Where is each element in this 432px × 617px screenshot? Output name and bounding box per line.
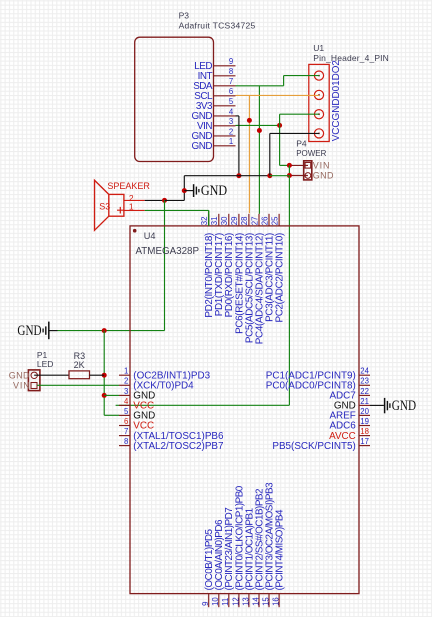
svg-text:17: 17 bbox=[360, 437, 369, 446]
svg-text:6: 6 bbox=[124, 417, 128, 426]
P3 pin 7 SDA stub bbox=[214, 85, 236, 87]
junction GND at bus bbox=[236, 173, 241, 178]
U4 pin 16 stub bbox=[278, 594, 280, 608]
wire VIN riser to U1 pad3 bbox=[279, 114, 281, 125]
U4 pin 2 stub bbox=[119, 384, 130, 386]
U4 pin 24 stub bbox=[359, 374, 370, 376]
connector P4 body bbox=[304, 161, 312, 180]
wire GND into U1 pad4 bbox=[270, 132, 319, 134]
wire SDA riser to U1 pad1 bbox=[283, 76, 285, 86]
wire SCL from P3 pin6 to U1 pad2 bbox=[236, 94, 320, 96]
U4 pin 30 stub bbox=[228, 214, 230, 226]
U4 pin 17 stub bbox=[359, 445, 370, 447]
wire R3 to GND rail junction bbox=[90, 374, 105, 376]
wire P1 VIN pad to U4 pin2 bbox=[37, 384, 119, 386]
P3 pin 6 SCL stub bbox=[214, 95, 236, 97]
junction GND to U1 riser bbox=[267, 173, 272, 178]
svg-text:GND: GND bbox=[201, 183, 227, 199]
svg-text:P3: P3 bbox=[179, 10, 190, 20]
wire GND drop from P3 pin4 bbox=[238, 116, 240, 176]
U4 pin 10 stub bbox=[218, 594, 220, 608]
P1 pad 1 (circle) bbox=[31, 372, 37, 378]
resistor R3 body bbox=[69, 371, 90, 379]
speaker plus sign bbox=[117, 207, 124, 214]
U4 pin 19 stub bbox=[359, 425, 370, 427]
svg-text:28: 28 bbox=[240, 217, 249, 226]
svg-text:30: 30 bbox=[220, 216, 229, 225]
svg-text:25: 25 bbox=[270, 216, 279, 225]
U4 pin 32 stub bbox=[208, 214, 210, 226]
svg-text:26: 26 bbox=[260, 217, 269, 226]
svg-text:14: 14 bbox=[251, 597, 260, 606]
P3 pin 9 LED stub bbox=[214, 65, 236, 67]
svg-text:22: 22 bbox=[360, 387, 369, 396]
svg-text:Pin_Header_4_PIN: Pin_Header_4_PIN bbox=[313, 53, 389, 63]
wire VCC drop through U4 to pin4 row bbox=[288, 176, 290, 406]
wire speaker pin1 (PD2 net) bbox=[145, 209, 209, 211]
U4 pin 11 stub bbox=[228, 594, 230, 608]
U4 pin 18 stub bbox=[359, 435, 370, 437]
P1 pad 2 (square) bbox=[31, 383, 37, 389]
junction at P4 pin2 bbox=[287, 173, 292, 178]
svg-text:8: 8 bbox=[229, 67, 233, 76]
U4 pin 28 stub bbox=[248, 214, 250, 226]
svg-text:POWER: POWER bbox=[296, 149, 326, 158]
junction GND rail at R3 bbox=[102, 373, 107, 378]
ground symbol (pin21) bbox=[385, 398, 390, 413]
svg-text:2: 2 bbox=[124, 377, 128, 386]
svg-text:5: 5 bbox=[124, 407, 129, 416]
wire to GND symbol riser bbox=[165, 199, 185, 201]
svg-text:GND: GND bbox=[392, 398, 416, 414]
U4 pin 9 stub bbox=[208, 594, 210, 608]
U1 pad 1 bbox=[314, 71, 323, 80]
wire GND rail to U4 pin3 bbox=[104, 394, 119, 396]
junction left GND rail bbox=[102, 328, 107, 333]
svg-text:10: 10 bbox=[211, 597, 220, 606]
wire VIN from P3 pin3 bbox=[236, 124, 280, 126]
U4 pin 23 stub bbox=[359, 384, 370, 386]
wire drop to U4 pin32 bbox=[208, 210, 210, 226]
junction at P4 pin1 bbox=[287, 163, 292, 168]
svg-text:20: 20 bbox=[360, 407, 369, 416]
speaker pin 1 stub bbox=[124, 209, 145, 211]
P3 pin 8 INT stub bbox=[214, 75, 236, 77]
svg-text:4: 4 bbox=[124, 397, 129, 406]
svg-text:24: 24 bbox=[360, 367, 369, 376]
svg-text:Adafruit TCS34725: Adafruit TCS34725 bbox=[179, 20, 256, 30]
U1 pad 3 bbox=[314, 110, 323, 119]
junction VIN branch bbox=[277, 123, 282, 128]
speaker pin 2 stub bbox=[124, 199, 145, 201]
svg-text:32: 32 bbox=[200, 217, 209, 226]
U4 pin 8 stub bbox=[119, 445, 130, 447]
P4 pin 1 stub bbox=[289, 164, 308, 166]
P3 pin 3 VIN stub bbox=[214, 125, 236, 127]
P4 pin 2 stub bbox=[289, 175, 308, 177]
speaker S3 symbol bbox=[95, 180, 124, 230]
wire left GND to junction bbox=[58, 330, 165, 332]
svg-text:23: 23 bbox=[360, 377, 369, 386]
P3 pin 1 GND stub bbox=[214, 145, 236, 147]
P3 pin 2 GND stub bbox=[214, 135, 236, 137]
U4 pin 4 stub bbox=[119, 404, 130, 406]
svg-text:21: 21 bbox=[360, 397, 369, 406]
svg-text:GND: GND bbox=[9, 371, 30, 381]
wire VIN down to P4 pin2 row bbox=[288, 165, 290, 175]
junction on SCL drop bbox=[247, 118, 252, 123]
svg-text:2K: 2K bbox=[74, 360, 85, 370]
ground symbol (left) bbox=[43, 322, 57, 340]
U4 pin 22 stub bbox=[359, 394, 370, 396]
svg-text:1: 1 bbox=[124, 367, 128, 376]
wire GND from P3 pin4 bbox=[236, 115, 239, 117]
ground symbol (speaker) bbox=[184, 184, 199, 197]
svg-text:8: 8 bbox=[124, 437, 128, 446]
U4 pin 20 stub bbox=[359, 414, 370, 416]
junction GND rail at pin3 bbox=[102, 393, 107, 398]
junction on SDA drop bbox=[257, 128, 262, 133]
svg-text:PB5(SCK/PCINT5): PB5(SCK/PCINT5) bbox=[272, 441, 355, 452]
P4 pad 1 (square) bbox=[305, 163, 311, 169]
svg-text:GND: GND bbox=[17, 323, 41, 339]
svg-text:27: 27 bbox=[250, 217, 259, 226]
U4 pin 3 stub bbox=[119, 394, 130, 396]
connector P3 body bbox=[135, 37, 214, 161]
U4 pin 1 stub bbox=[119, 374, 130, 376]
U4 pin 31 stub bbox=[218, 214, 220, 226]
svg-text:9: 9 bbox=[201, 602, 210, 606]
svg-text:U1: U1 bbox=[313, 43, 324, 53]
U4 pin 7 stub bbox=[119, 435, 130, 437]
svg-text:3: 3 bbox=[229, 117, 233, 126]
svg-text:PC2(ADC2/PCINT10): PC2(ADC2/PCINT10) bbox=[275, 233, 286, 323]
svg-text:6: 6 bbox=[229, 87, 233, 96]
wire SDA drop to U4 pin27 bbox=[258, 86, 260, 214]
wire GND bus to P4 branch (green) bbox=[270, 175, 290, 177]
U4 pin 12 stub bbox=[238, 594, 240, 608]
U1 pad 2 bbox=[314, 90, 323, 99]
svg-text:(XTAL2/TOSC2)PB7: (XTAL2/TOSC2)PB7 bbox=[133, 441, 223, 452]
P4 pad 2 (circle) bbox=[305, 173, 311, 179]
svg-text:4: 4 bbox=[229, 107, 234, 116]
svg-text:16: 16 bbox=[272, 597, 281, 606]
IC U4 body bbox=[130, 226, 359, 594]
P3 pin 4 GND stub bbox=[214, 115, 236, 117]
svg-text:2: 2 bbox=[229, 127, 233, 136]
wire SCL drop to U4 pin28 bbox=[248, 95, 250, 213]
U4 pin 13 stub bbox=[248, 594, 250, 608]
U4 pin 6 stub bbox=[119, 425, 130, 427]
wire VIN down to P4 bbox=[279, 125, 281, 165]
svg-text:VIN: VIN bbox=[13, 381, 31, 391]
U4 pin1 marker dot bbox=[133, 229, 137, 233]
U4 pin 14 stub bbox=[258, 594, 260, 608]
svg-text:7: 7 bbox=[124, 427, 128, 436]
svg-text:P4: P4 bbox=[296, 138, 307, 148]
wire GND rail to U4 pin5 bbox=[104, 414, 119, 416]
wire speaker pin2 to GND junction bbox=[145, 199, 165, 201]
wire VIN into U1 pad3 bbox=[280, 113, 319, 115]
U4 pin 5 stub bbox=[119, 414, 130, 416]
svg-text:31: 31 bbox=[210, 217, 219, 226]
wire GND rail down left side bbox=[103, 331, 105, 416]
svg-text:9: 9 bbox=[229, 57, 233, 66]
wire SDA from P3 pin7 bbox=[236, 85, 284, 87]
svg-text:1: 1 bbox=[229, 137, 233, 146]
svg-text:5: 5 bbox=[229, 97, 234, 106]
wire GND riser from speaker junction bbox=[164, 200, 166, 330]
wire GND bus horizontal bbox=[184, 175, 269, 177]
junction at speaker GND symbol bbox=[182, 188, 187, 193]
svg-text:13: 13 bbox=[241, 597, 250, 606]
svg-text:VIN: VIN bbox=[313, 160, 331, 170]
U4 pin 29 stub bbox=[238, 214, 240, 226]
wire SDA into U1 pad1 bbox=[284, 75, 319, 77]
svg-text:GND: GND bbox=[313, 170, 334, 180]
U4 pin 15 stub bbox=[268, 594, 270, 608]
svg-text:19: 19 bbox=[360, 417, 369, 426]
wire VCC across U4 to pin4 bbox=[116, 404, 290, 406]
U1 pad 4 bbox=[314, 129, 323, 138]
svg-text:U4: U4 bbox=[144, 231, 156, 241]
connector P1 body bbox=[28, 370, 40, 391]
svg-text:ATMEGA328P: ATMEGA328P bbox=[136, 246, 200, 257]
svg-text:11: 11 bbox=[221, 598, 230, 606]
svg-text:GND: GND bbox=[192, 141, 213, 152]
U4 pin 27 stub bbox=[258, 214, 260, 226]
svg-text:VCCGNDD01DO2: VCCGNDD01DO2 bbox=[331, 60, 342, 141]
junction speaker GND bbox=[162, 198, 167, 203]
P3 pin 5 3V3 stub bbox=[214, 105, 236, 107]
svg-text:15: 15 bbox=[261, 597, 270, 606]
U4 pin 21 stub bbox=[359, 404, 370, 406]
U4 pin 26 stub bbox=[268, 214, 270, 226]
svg-text:LED: LED bbox=[37, 359, 54, 369]
wire U4 pin21 to ground bbox=[370, 404, 384, 406]
header U1 body bbox=[309, 64, 329, 141]
wire GND riser near speaker bbox=[183, 176, 185, 201]
wire drop to U4 pin32 (overdraw) bbox=[208, 210, 210, 226]
wire VIN to P4 pin1 bbox=[280, 164, 290, 166]
U4 pin 25 stub bbox=[278, 214, 280, 226]
svg-text:SPEAKER: SPEAKER bbox=[107, 181, 150, 191]
wire P1 GND pad to R3 bbox=[34, 374, 69, 376]
svg-text:7: 7 bbox=[229, 77, 233, 86]
svg-text:18: 18 bbox=[360, 427, 369, 436]
svg-text:12: 12 bbox=[231, 597, 240, 606]
wire GND riser to U1 pad4 bbox=[269, 133, 271, 175]
svg-text:3: 3 bbox=[124, 387, 128, 396]
svg-text:29: 29 bbox=[230, 217, 239, 226]
svg-text:(PCINT4/MISO)PB4: (PCINT4/MISO)PB4 bbox=[275, 509, 286, 590]
